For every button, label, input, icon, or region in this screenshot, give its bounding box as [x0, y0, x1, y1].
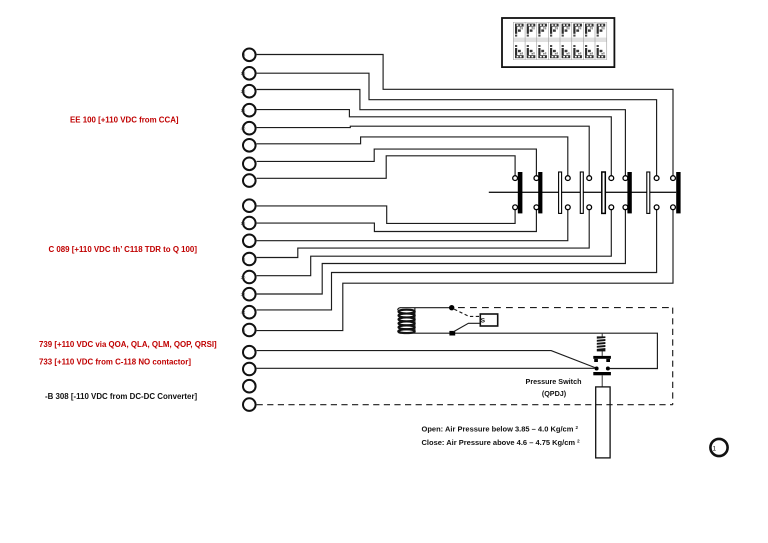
- pressure switch moving bridge (top bar): [593, 356, 611, 359]
- interlock box S: [480, 314, 497, 326]
- detail cell top 5: [562, 24, 571, 37]
- detail cell top 7: [585, 24, 594, 37]
- contact K4 bar (open): [580, 172, 583, 213]
- pin P2-5: [243, 271, 256, 284]
- pressure switch lower bar: [593, 372, 611, 375]
- contact K6 top terminal: [623, 176, 628, 181]
- pin P1-2: [243, 67, 256, 80]
- contact K1 bottom terminal: [513, 205, 518, 210]
- pin P3-4: [243, 398, 256, 411]
- pin P2-4: [243, 253, 256, 266]
- detail cell bottom 4: [550, 45, 559, 58]
- wire pin P1-2 to contact K7 top: [257, 73, 657, 176]
- wire coil top to junction A: [400, 307, 452, 309]
- pin P2-3: [243, 235, 256, 248]
- contact K8 bottom terminal: [671, 205, 676, 210]
- pin P1-3: [243, 85, 256, 98]
- pin P3-3: [243, 380, 256, 393]
- pin P2-1: [243, 199, 256, 212]
- detail box J1 (contact detail table): [502, 18, 614, 67]
- wire pin P1-5 to contact K4 top: [257, 126, 590, 176]
- pressure cylinder: [596, 387, 610, 458]
- pin P2-2: [243, 217, 256, 230]
- pin P1-6: [243, 139, 256, 152]
- svg-text:20: 20: [241, 275, 246, 280]
- svg-text:S: S: [481, 318, 486, 325]
- contact K1 top terminal: [513, 176, 518, 181]
- contact K7 top terminal: [654, 176, 659, 181]
- detail cell top 3: [538, 24, 547, 37]
- svg-text:EE 100 [+110 VDC from CCA]: EE 100 [+110 VDC from CCA]: [70, 115, 179, 124]
- detail cell top 4: [550, 24, 559, 37]
- svg-text:-B 308 [-110 VDC from DC-DC Co: -B 308 [-110 VDC from DC-DC Converter]: [45, 392, 198, 401]
- wire pin P1-6 to contact K3 top: [257, 137, 568, 176]
- detail cell bottom 2: [527, 45, 536, 58]
- contact K8 bar (closed): [676, 172, 680, 213]
- contact K1 bar (closed): [518, 172, 523, 213]
- wire pin P2-7 to contact K7 bottom: [257, 210, 657, 310]
- wire pin P1-3 to contact K6 top: [257, 90, 626, 176]
- wire pin P2-6 to contact K6 bottom: [257, 210, 626, 294]
- pin P1-7: [243, 158, 256, 171]
- contact K5 bar (open): [602, 172, 606, 213]
- contact K4 top terminal: [587, 176, 592, 181]
- wire coil bottom to pressure switch right contact: [400, 333, 657, 368]
- junction A (dot): [449, 305, 454, 310]
- contact K4 bottom terminal: [587, 205, 592, 210]
- pressure switch lower stem: [601, 375, 603, 387]
- detail cell top 6: [573, 24, 582, 37]
- wire pin P1-8 to contact K1 top: [257, 156, 515, 179]
- svg-text:733 [+110 VDC from C-118 NO co: 733 [+110 VDC from C-118 NO contactor]: [39, 357, 191, 366]
- contact K2 bottom terminal: [534, 205, 539, 210]
- detail cell bottom 7: [585, 45, 594, 58]
- coil L1: [399, 308, 415, 334]
- wire pin P1-1 to contact K8 top: [257, 55, 673, 176]
- svg-text:18: 18: [241, 221, 246, 226]
- detail cell bottom 1: [515, 45, 524, 58]
- svg-text:32: 32: [241, 292, 246, 297]
- enclosure QPDJ dashed box right edge: [672, 308, 674, 405]
- wire pin P2-8 to contact K8 bottom: [257, 210, 673, 331]
- pin P3-2: [243, 363, 256, 376]
- detail cell bottom 6: [573, 45, 582, 58]
- svg-text:Close: Air Pressure above 4.6: Close: Air Pressure above 4.6 – 4.75 Kg/…: [422, 438, 581, 447]
- pin P2-6: [243, 288, 256, 301]
- contact K3 bar (open): [559, 172, 562, 213]
- wire pin P3-1 to pressure switch left contact: [257, 351, 596, 368]
- pin P3-1: [243, 346, 256, 359]
- svg-text:44: 44: [241, 310, 246, 315]
- detail cell top 1: [515, 24, 524, 37]
- wire pin P2-3 to contact K3 bottom: [257, 210, 568, 241]
- contact K6 bottom terminal: [623, 205, 628, 210]
- pressure switch left fixed contact: [595, 367, 599, 371]
- contact K8 top terminal: [671, 176, 676, 181]
- pressure switch right fixed contact: [606, 367, 610, 371]
- contact K2 top terminal: [534, 176, 539, 181]
- wire pin P1-7 to contact K2 top: [257, 149, 537, 176]
- detail cell top 2: [527, 24, 536, 37]
- detail cell bottom 8: [597, 45, 606, 58]
- contact K3 top terminal: [565, 176, 570, 181]
- contact K5 bottom terminal: [609, 205, 614, 210]
- node 1 (sheet reference): [710, 439, 727, 456]
- contact K7 bottom terminal: [654, 205, 659, 210]
- enclosure QPDJ dashed box top edge: [458, 307, 673, 309]
- svg-text:16: 16: [241, 108, 246, 113]
- wire pin P2-4 to contact K4 bottom: [257, 210, 590, 258]
- coil lead hooks: [398, 308, 401, 334]
- pin P2-7: [243, 306, 256, 319]
- contact K6 bar (closed): [627, 172, 631, 213]
- pin P1-4: [243, 104, 256, 117]
- svg-text:739 [+110 VDC via QOA, QLA, QL: 739 [+110 VDC via QOA, QLA, QLM, QOP, QR…: [39, 340, 217, 349]
- junction B (dot): [449, 331, 455, 336]
- svg-text:Pressure Switch: Pressure Switch: [526, 377, 582, 386]
- node bus (contact common line): [489, 191, 676, 193]
- switch blade (solid): [454, 323, 481, 332]
- svg-text:C 089 [+110 VDC th’ C118 TDR t: C 089 [+110 VDC th’ C118 TDR to Q 100]: [49, 245, 198, 254]
- wire pin P3-2 to pressure switch left contact: [257, 367, 595, 369]
- contact K7 bar (open): [647, 172, 650, 213]
- pressure switch spring: [596, 336, 605, 351]
- svg-text:40: 40: [241, 126, 246, 131]
- svg-text:16: 16: [241, 71, 246, 76]
- detail cell top 8: [597, 24, 606, 37]
- wire pin P2-5 to contact K5 bottom: [257, 210, 612, 276]
- pressure switch stem: [601, 333, 603, 356]
- switch linkage to S (dashed): [454, 309, 480, 316]
- pin P1-8: [243, 174, 256, 187]
- svg-text:Open: Air Pressure below 3.85: Open: Air Pressure below 3.85 – 4.0 Kg/c…: [422, 425, 579, 434]
- contact K3 bottom terminal: [565, 205, 570, 210]
- detail cell bottom 3: [538, 45, 547, 58]
- wire pin P3-4 dashed (enclosure bottom): [257, 404, 673, 406]
- wire pin P1-4 to contact K5 top: [257, 110, 612, 176]
- contact K5 top terminal: [609, 176, 614, 181]
- svg-text:1: 1: [713, 445, 717, 452]
- contact K2 bar (closed): [538, 172, 542, 213]
- svg-text:28: 28: [241, 89, 246, 94]
- pin P1-1: [243, 49, 256, 62]
- pin P2-8: [243, 324, 256, 337]
- wire pin P2-1 to contact K1 bottom: [257, 206, 515, 224]
- pin P1-5: [243, 122, 256, 135]
- svg-text:(QPDJ): (QPDJ): [542, 389, 567, 398]
- detail cell bottom 5: [562, 45, 571, 58]
- wire pin P2-2 to contact K2 bottom: [257, 210, 537, 232]
